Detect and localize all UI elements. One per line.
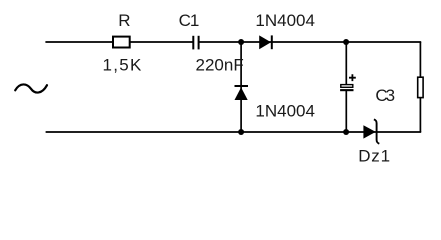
svg-text:Dz1: Dz1 xyxy=(358,146,391,165)
svg-text:1N4004: 1N4004 xyxy=(255,11,315,30)
svg-text:220nF: 220nF xyxy=(196,55,244,74)
svg-text:1,5K: 1,5K xyxy=(103,55,143,74)
svg-text:C3: C3 xyxy=(375,86,394,105)
svg-text:R: R xyxy=(118,11,130,30)
svg-text:C1: C1 xyxy=(179,11,199,30)
svg-text:1N4004: 1N4004 xyxy=(255,101,315,120)
